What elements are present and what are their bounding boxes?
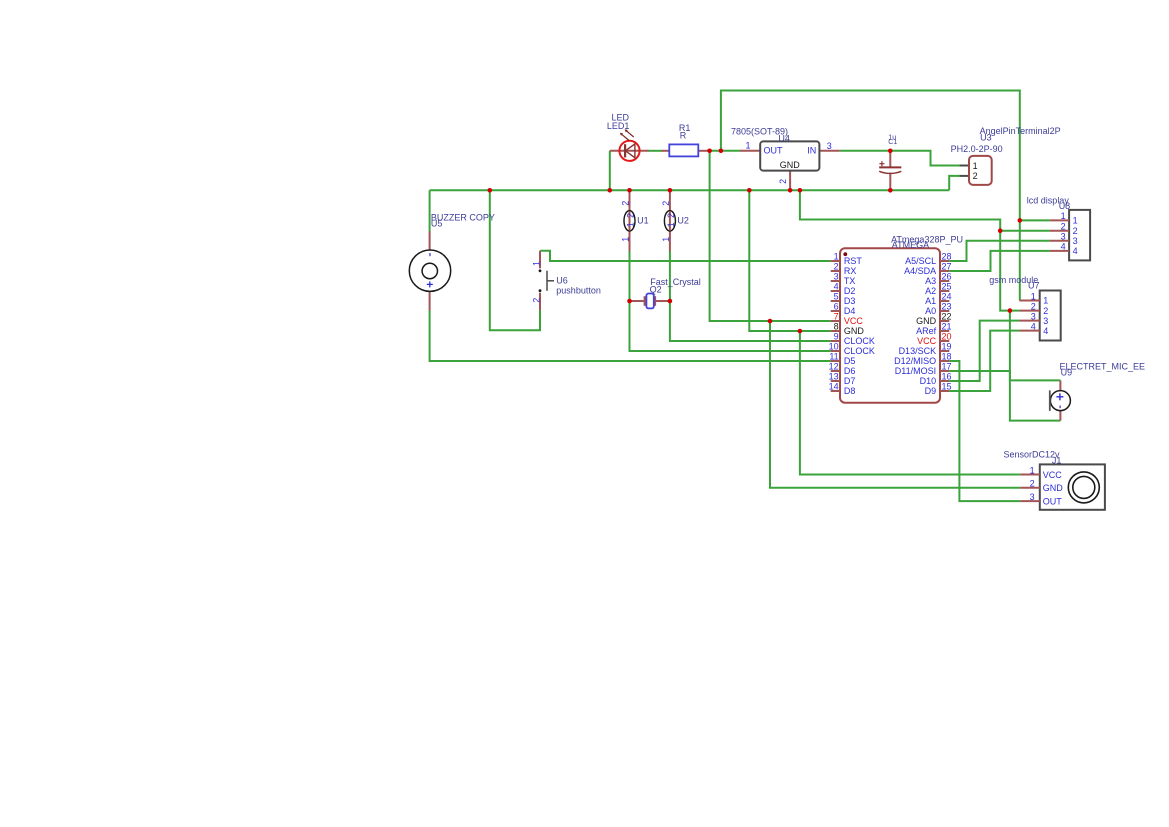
LED LED1 anode-cathode wire [610,150,649,152]
IC pin 12 D6 stub [831,370,840,372]
buzzer U5 top stub [429,231,431,250]
wire: top rail from R1 output node up and across to lcd/gsm pin1 column [721,91,1020,301]
svg-text:2: 2 [1030,479,1035,489]
node: C1 top on OUT-IN wire [888,149,893,154]
node: VCC row / sensor branch [768,319,773,324]
svg-text:6: 6 [834,301,839,311]
svg-text:TX: TX [844,276,856,286]
svg-text:U8: U8 [1059,201,1071,211]
resistor R1 body [669,144,698,156]
svg-text:10: 10 [829,341,839,351]
svg-text:2: 2 [1043,306,1048,316]
IC pin 27 A4/SDA stub [940,270,949,272]
resistor R1 left stub [662,150,670,152]
svg-text:3: 3 [1030,492,1035,502]
IC pin 25 A2 stub [940,290,949,292]
svg-text:1: 1 [621,237,631,242]
svg-text:U7: U7 [1028,280,1040,290]
wire: gsm module pin1 entry [1019,300,1022,302]
capacitor C1 top stub [889,151,891,168]
svg-text:1: 1 [1030,465,1035,475]
connector U3 pin 1 stub [960,165,969,167]
svg-text:24: 24 [942,291,952,301]
svg-text:7: 7 [834,311,839,321]
component U1 ellipse body [624,211,635,231]
svg-text:1: 1 [1073,216,1078,226]
svg-text:4: 4 [1061,242,1066,252]
svg-text:26: 26 [942,271,952,281]
svg-text:D7: D7 [844,376,856,386]
node: gsm pin 2 junction [1008,308,1013,313]
svg-text:3: 3 [1061,232,1066,242]
svg-text:U3: U3 [980,133,992,143]
svg-text:U1: U1 [637,215,649,225]
svg-text:U2: U2 [677,215,689,225]
wire: 7805 IN pin to C1 top and over to U3 pin 1 [840,151,960,166]
wire: R1 output to 7805 OUT pin [710,150,741,152]
component U2 bottom stub [669,231,671,252]
svg-text:15: 15 [942,381,952,391]
svg-text:VCC: VCC [917,336,937,346]
node: bus / U2 top [668,188,673,193]
sensor J1 pin 3 stub [1020,500,1040,502]
node: bus / U1 top [627,188,632,193]
connector U8 pin 2 stub [1050,230,1069,232]
svg-text:OUT: OUT [1043,496,1063,506]
svg-text:3: 3 [1031,311,1036,321]
pushbutton U6 actuator bar [546,271,548,291]
regulator U4 pin 1 stub [740,150,760,152]
LED LED1 triangle [625,144,635,158]
IC pin 14 D8 stub [831,390,840,392]
svg-text:8: 8 [834,321,839,331]
wire: ATmega pin 27 A4/SDA up to lcd pin 4 [949,251,1050,271]
svg-text:AngelPinTerminal2P: AngelPinTerminal2P [980,126,1061,136]
IC pin 22 GND stub [940,320,949,322]
wire: lcd pin 2 branch [1000,230,1050,232]
wire: LED anode to left vertical drop to GND bus [609,151,611,191]
buzzer U5 minus mark [429,253,431,256]
connector U8 pin 1 stub [1050,219,1069,221]
svg-text:3: 3 [1043,316,1048,326]
pushbutton U6 actuator tick [547,280,554,282]
svg-text:D6: D6 [844,366,856,376]
capacitor C1 top plate [879,166,901,168]
svg-text:D4: D4 [844,306,856,316]
svg-text:1: 1 [1061,211,1066,221]
svg-text:22: 22 [942,311,952,321]
svg-text:1: 1 [531,261,541,266]
svg-text:25: 25 [942,281,952,291]
svg-text:1: 1 [745,141,750,151]
svg-text:2: 2 [666,213,676,218]
component U2 top stub [669,190,671,211]
svg-text:21: 21 [942,321,952,331]
regulator U4 pin 2 stub [789,171,791,191]
buzzer U5 inner circle [422,263,437,278]
svg-text:17: 17 [942,361,952,371]
sensor J1 body [1040,464,1105,509]
LED LED1 emission arrow 2 [627,131,634,137]
svg-text:18: 18 [942,351,952,361]
component U2 ellipse body [664,211,675,231]
svg-text:D12/MISO: D12/MISO [894,356,936,366]
component U1 top stub [629,190,631,211]
svg-text:5: 5 [834,291,839,301]
svg-text:VCC: VCC [844,316,864,326]
wire: lcd display pin1 branch from vertical rail [1020,219,1050,221]
svg-text:1: 1 [1043,296,1048,306]
svg-text:RX: RX [844,266,857,276]
svg-text:A4/SDA: A4/SDA [904,266,936,276]
wire: VCC net from R1 output node down to ATmega pin 7 VCC [710,151,831,321]
svg-text:A5/SCL: A5/SCL [905,256,936,266]
IC pin 24 A1 stub [940,300,949,302]
svg-text:GND: GND [780,160,801,170]
microphone U9 top stub [1059,380,1061,391]
wire: ATmega pin 18 D12/MISO down to sensor J1 pin 3 OUT [949,361,1020,501]
capacitor C1 plus sign [879,163,884,165]
svg-text:R: R [680,130,687,140]
svg-text:A0: A0 [925,306,936,316]
connector U7 pin 3 stub [1019,320,1039,322]
node: bus / 7805 pin 2 [788,188,793,193]
svg-text:ELECTRET_MIC_EE: ELECTRET_MIC_EE [1060,362,1146,372]
IC pin 1 RST stub [831,260,840,262]
svg-text:D13/SCK: D13/SCK [899,346,937,356]
svg-text:U6: U6 [556,275,568,285]
svg-text:12: 12 [829,361,839,371]
wire: pushbutton pin 1 jog to ATmega pin 1 RST [540,251,831,261]
microphone U9 minus mark [1059,406,1061,409]
svg-text:2: 2 [1061,222,1066,232]
svg-text:ARef: ARef [916,326,937,336]
svg-text:11: 11 [829,351,838,361]
connector U8 lcd display body [1069,210,1090,261]
LED LED1 body circle [619,141,639,161]
node: bus / pushbutton branch [488,188,493,193]
node: bus / C1 bottom [888,188,893,193]
svg-text:A2: A2 [925,286,936,296]
IC ATmega328P_PU body [840,248,940,403]
component U2 inner wire [669,211,671,231]
wire: LED to R1 segment [648,150,662,152]
svg-text:D5: D5 [844,356,856,366]
IC pin 11 D5 stub [831,360,840,362]
connector U7 pin 2 stub [1019,310,1039,312]
svg-text:LED1: LED1 [607,121,630,131]
microphone U9 body circle [1050,391,1070,411]
svg-text:A1: A1 [925,296,936,306]
connector U8 pin 4 stub [1050,250,1069,252]
svg-text:GND: GND [916,316,937,326]
svg-text:16: 16 [942,371,952,381]
wire: GND row branch down to sensor J1 pin 1 VCC [800,331,1020,475]
svg-text:VCC: VCC [1043,470,1063,480]
svg-text:D8: D8 [844,386,856,396]
IC ATmega328P_PU pin 1 marker dot [843,252,847,256]
svg-text:2: 2 [778,179,788,184]
component U1 bottom stub [629,231,631,252]
node: lcd pin 1 junction [1018,218,1023,223]
svg-text:2: 2 [1031,301,1036,311]
svg-text:1: 1 [834,251,839,261]
node: lcd pin 2 junction [998,228,1003,233]
svg-text:19: 19 [942,341,952,351]
svg-text:2: 2 [661,201,671,206]
svg-text:D10: D10 [920,376,937,386]
node: R1 output / VCC tap [707,149,712,154]
svg-text:U4: U4 [778,133,790,143]
IC pin 28 A5/SCL stub [940,260,949,262]
node: bus / lcd-gsm pin2 branch [798,188,803,193]
IC pin 16 D10 stub [940,380,949,382]
sensor J1 pin 1 stub [1020,474,1040,476]
IC pin 5 D3 stub [831,300,840,302]
microphone U9 bottom stub [1059,410,1061,420]
svg-text:D11/MOSI: D11/MOSI [895,366,936,376]
svg-text:A3: A3 [925,276,936,286]
pushbutton U6 pin 1 stub [539,251,541,269]
connector U7 pin 4 stub [1019,330,1039,332]
IC pin 19 D13/SCK stub [940,350,949,352]
svg-text:4: 4 [1043,326,1048,336]
LED LED1 cathode bar [624,144,626,157]
svg-text:3: 3 [834,271,839,281]
crystal Q2 left stub [630,300,644,302]
IC pin 18 D12/MISO stub [940,360,949,362]
svg-text:IN: IN [807,145,816,155]
wire: pushbutton pin 2 down, left and up to bus [490,190,540,330]
svg-text:U9: U9 [1061,367,1073,377]
svg-text:GND: GND [1043,483,1064,493]
svg-text:4: 4 [834,281,839,291]
connector U3 body [969,156,992,185]
svg-text:C1: C1 [888,139,897,146]
pushbutton U6 pin 2 stub [539,293,541,310]
svg-text:27: 27 [942,261,952,271]
node: GND row / sensor branch [798,329,803,334]
IC pin 8 GND stub [831,330,840,332]
svg-text:4: 4 [1031,321,1036,331]
svg-text:pushbutton: pushbutton [556,285,601,295]
connector U7 pin 1 stub [1019,300,1039,302]
IC pin 9 CLOCK stub [831,340,840,342]
svg-text:3: 3 [1073,236,1078,246]
connector U8 pin 3 stub [1050,240,1069,242]
svg-text:OUT: OUT [764,145,784,155]
node: crystal left [627,299,632,304]
svg-text:PH2.0-2P-90: PH2.0-2P-90 [951,144,1003,154]
wire: U1 bottom through crystal left node down to ATmega pin 10 CLOCK [630,251,831,351]
svg-text:20: 20 [942,331,952,341]
wire: bus branch jog to lcd pin 2 and down to gsm pin 2 [800,190,1020,310]
node: bus / LED branch [608,188,613,193]
wire: buzzer bottom pin down and right to ATmega pin 11 D5 [430,310,831,361]
svg-text:1: 1 [661,237,671,242]
wire: bus branch down to ATmega pin 8 GND [749,190,830,331]
connector U7 gsm module body [1040,291,1061,341]
svg-text:1: 1 [666,222,676,227]
wire: bus left end down to buzzer top pin [429,190,431,231]
svg-text:D3: D3 [844,296,856,306]
IC pin 21 ARef stub [940,330,949,332]
IC pin 17 D11/MOSI stub [940,370,949,372]
IC pin 2 RX stub [831,270,840,272]
IC pin 4 D2 stub [831,290,840,292]
crystal Q2 body [646,294,653,309]
wire: ATmega pin 16 D10 up to gsm pin 3 [949,321,1019,381]
svg-text:3: 3 [827,141,832,151]
LED LED1 emission arrow 1 [622,135,629,141]
crystal Q2 right stub [656,300,670,302]
IC pin 6 D4 stub [831,310,840,312]
wire: ATmega pin 28 A5/SCL up to lcd pin 3 [949,241,1050,261]
node: R1 output / top-rail tap [719,149,724,154]
svg-text:GND: GND [844,326,865,336]
regulator U4 pin 3 stub [819,150,839,152]
svg-text:9: 9 [834,331,839,341]
microphone U9 plus mark [1056,396,1063,398]
svg-text:13: 13 [829,371,839,381]
wire: horizontal GND/common bus [430,189,950,191]
node: bus / GND-row branch [747,188,752,193]
svg-text:D9: D9 [925,386,937,396]
node: crystal right [668,299,673,304]
svg-text:1: 1 [626,222,636,227]
sensor J1 inner circle [1073,476,1095,498]
buzzer U5 bottom stub [429,291,431,310]
resistor R1 right stub [698,150,710,152]
IC pin 3 TX stub [831,280,840,282]
svg-text:1: 1 [1031,291,1036,301]
IC pin 23 A0 stub [940,310,949,312]
svg-text:28: 28 [942,251,952,261]
IC pin 10 CLOCK stub [831,350,840,352]
svg-text:U5: U5 [431,219,443,229]
svg-text:1: 1 [973,161,978,171]
svg-text:14: 14 [829,381,839,391]
IC pin 13 D7 stub [831,380,840,382]
svg-text:CLOCK: CLOCK [844,346,875,356]
connector U3 pin 2 stub [960,175,969,177]
buzzer U5 outer circle [409,250,450,291]
wire: gsm pin 2 node down and right to electret mic bottom [1010,311,1061,421]
wire: VCC row branch down to sensor J1 pin 2 GND [770,321,1020,488]
svg-text:ATMEGA: ATMEGA [892,240,929,250]
svg-text:2: 2 [621,201,631,206]
pushbutton U6 contact dots [539,269,542,272]
svg-text:D2: D2 [844,286,856,296]
wire: U2 bottom through crystal right node down to ATmega pin 9 CLOCK [670,251,831,341]
svg-text:RST: RST [844,256,863,266]
capacitor C1 curved plate [879,171,901,173]
svg-text:2: 2 [973,171,978,181]
IC pin 7 VCC stub [831,320,840,322]
regulator U4 body 7805(SOT-89) [760,141,819,170]
svg-text:2: 2 [531,298,541,303]
wire: ATmega pin 15 D9 up to gsm pin 4 [949,331,1019,391]
svg-text:2: 2 [834,261,839,271]
svg-text:J1: J1 [1052,455,1062,465]
component U1 inner wire [629,211,631,231]
wire: ATmega pin 17 D11/MOSI over and down to electret mic top [949,371,1060,380]
IC pin 20 VCC stub [940,340,949,342]
svg-text:2: 2 [626,213,636,218]
svg-text:Q2: Q2 [650,284,662,294]
capacitor C1 bottom stub [889,173,891,191]
buzzer U5 plus mark [427,283,433,285]
svg-text:23: 23 [942,301,952,311]
svg-text:CLOCK: CLOCK [844,336,875,346]
IC pin 26 A3 stub [940,280,949,282]
IC pin 15 D9 stub [940,390,949,392]
svg-text:4: 4 [1073,246,1078,256]
wire: U3 pin 2 down to bus right end [949,176,960,190]
crystal Q2 right plate [654,296,656,306]
svg-text:2: 2 [1073,226,1078,236]
microphone U9 plate bar [1049,390,1051,411]
sensor J1 pin 2 stub [1020,487,1040,489]
sensor J1 outer circle [1068,472,1099,503]
crystal Q2 left plate [644,296,646,306]
